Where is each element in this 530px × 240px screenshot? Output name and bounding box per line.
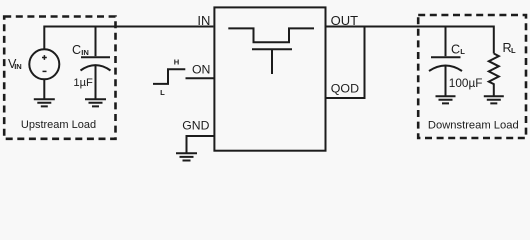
svg-text:L: L [160,88,165,97]
svg-text:C: C [72,43,81,57]
svg-text:100µF: 100µF [449,76,483,90]
svg-text:OUT: OUT [331,13,359,28]
svg-text:L: L [460,47,465,56]
svg-text:ON: ON [192,62,210,76]
svg-text:Upstream Load: Upstream Load [21,119,96,131]
svg-text:QOD: QOD [331,81,359,95]
svg-text:C: C [451,42,460,56]
svg-text:IN: IN [81,48,89,57]
svg-text:IN: IN [197,13,210,28]
svg-text:Downstream Load: Downstream Load [428,120,519,132]
svg-text:1µF: 1µF [73,77,93,89]
svg-text:H: H [174,58,179,67]
svg-text:L: L [511,46,516,55]
svg-text:IN: IN [14,62,22,71]
svg-text:GND: GND [182,119,209,133]
